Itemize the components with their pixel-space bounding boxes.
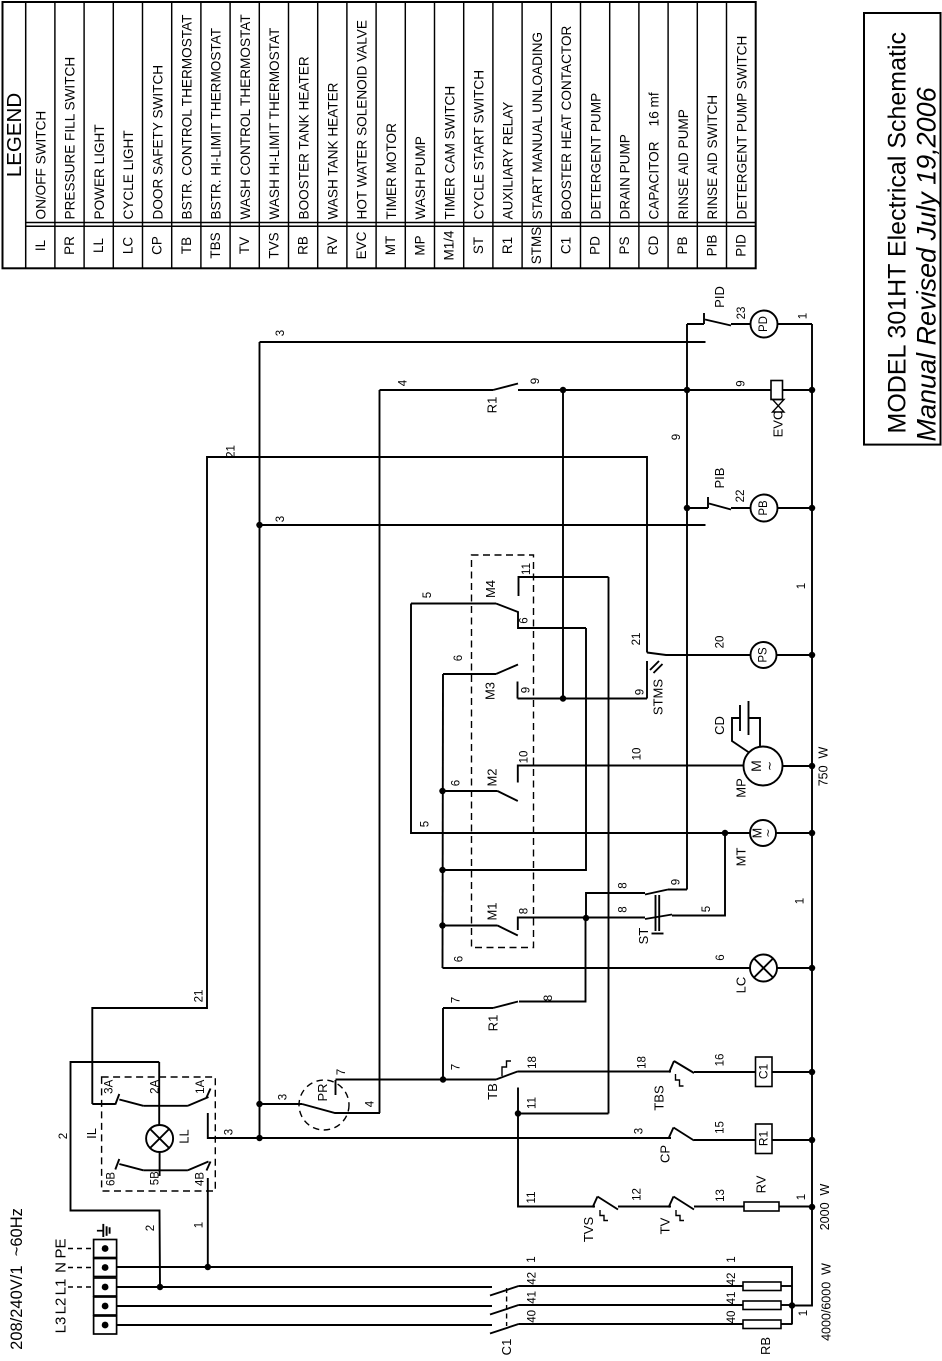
wire 11 junction — [518, 1113, 609, 1115]
wire N — [117, 1267, 792, 1325]
svg-text:21: 21 — [194, 990, 206, 1003]
PR blade to 4 — [302, 1104, 380, 1113]
wire 7 from PR to TB — [336, 1079, 497, 1081]
svg-text:R1: R1 — [485, 397, 500, 414]
lamp LC — [750, 955, 777, 982]
svg-text:21: 21 — [225, 445, 237, 458]
svg-text:10: 10 — [632, 748, 644, 761]
svg-text:∼: ∼ — [763, 828, 775, 837]
svg-text:18: 18 — [637, 1056, 649, 1069]
wire 4 top — [380, 389, 494, 391]
svg-text:2000 W: 2000 W — [818, 1184, 832, 1231]
svg-text:MODEL 301HT Electrical Schemat: MODEL 301HT Electrical Schematic — [884, 32, 912, 434]
svg-text:3: 3 — [224, 1129, 236, 1135]
svg-text:41: 41 — [726, 1292, 738, 1305]
svg-text:11: 11 — [526, 1192, 538, 1204]
pump PD — [751, 311, 778, 338]
capacitor CD — [739, 705, 741, 731]
legend entry TB — [200, 2, 202, 268]
svg-text:MT: MT — [734, 848, 749, 867]
svg-text:PD: PD — [758, 316, 770, 332]
wire PID to PD — [731, 323, 751, 325]
svg-text:11: 11 — [527, 1097, 539, 1109]
junction 3 mid — [256, 522, 263, 529]
svg-text:WASH PUMP: WASH PUMP — [413, 136, 428, 219]
dashed leader L1 — [68, 1286, 92, 1288]
svg-text:L2: L2 — [52, 1298, 69, 1315]
svg-text:PB: PB — [675, 236, 690, 254]
junction node3 IL — [256, 1135, 263, 1142]
svg-text:N: N — [52, 1262, 69, 1273]
svg-text:LL: LL — [177, 1129, 192, 1143]
junction 9 row a — [560, 387, 567, 394]
wire 9 to ST — [668, 889, 687, 891]
svg-text:16: 16 — [715, 1054, 727, 1067]
svg-text:RB: RB — [758, 1337, 773, 1355]
svg-text:1: 1 — [726, 1256, 738, 1262]
wire RV to bus1 — [779, 1206, 812, 1208]
svg-text:TB: TB — [485, 1083, 500, 1100]
wire 8 from R1 — [519, 918, 586, 1002]
svg-text:1: 1 — [526, 1256, 538, 1262]
svg-text:3: 3 — [275, 330, 287, 336]
contactor C1 pole 41 — [117, 1305, 492, 1307]
svg-text:EVC: EVC — [771, 411, 786, 438]
svg-text:6: 6 — [454, 956, 466, 962]
IL contact 6B — [115, 1159, 119, 1170]
svg-text:DRAIN PUMP: DRAIN PUMP — [618, 134, 633, 219]
IL pole B bar — [143, 1169, 188, 1171]
wire PIB to PB — [731, 507, 751, 509]
motor MP — [744, 747, 783, 786]
IL blade 5B-4B — [188, 1162, 209, 1171]
svg-text:PIB: PIB — [712, 468, 727, 489]
legend entry CD — [667, 2, 669, 268]
svg-text:3: 3 — [278, 1094, 290, 1100]
svg-text:WASH HI-LIMIT THERMOSTAT: WASH HI-LIMIT THERMOSTAT — [267, 28, 282, 220]
ground symbol PE — [97, 1230, 103, 1232]
svg-text:POWER LIGHT: POWER LIGHT — [92, 124, 107, 219]
svg-text:CP: CP — [150, 236, 165, 255]
svg-text:6: 6 — [453, 655, 465, 661]
svg-text:1: 1 — [193, 1222, 205, 1228]
svg-text:4000/6000 W: 4000/6000 W — [820, 1263, 834, 1341]
svg-text:LL: LL — [91, 238, 106, 254]
wire 6 link M4 — [443, 628, 587, 870]
legend table frame — [3, 2, 756, 268]
terminal L1 — [94, 1278, 117, 1296]
svg-text:12: 12 — [632, 1188, 644, 1201]
svg-text:7: 7 — [451, 1064, 463, 1070]
wire 5 riser — [411, 604, 750, 834]
wire bus 1 vertical — [792, 324, 812, 1306]
IL contact 3A — [92, 1103, 115, 1105]
wire 9 row to EVC — [518, 389, 771, 391]
switch ST pole 1 — [586, 893, 645, 918]
wire 21 bus — [92, 457, 647, 1104]
svg-text:4: 4 — [364, 1100, 376, 1107]
wire R1 to bus1 — [772, 1139, 812, 1141]
terminal L3 — [94, 1316, 117, 1334]
svg-text:9: 9 — [635, 689, 647, 695]
junction 7 — [440, 1076, 447, 1083]
svg-text:CYCLE START SWITCH: CYCLE START SWITCH — [472, 70, 487, 220]
svg-text:STMS: STMS — [529, 227, 544, 265]
svg-text:TVS: TVS — [266, 232, 281, 258]
svg-text:23: 23 — [736, 307, 748, 320]
svg-text:START MANUAL UNLOADING: START MANUAL UNLOADING — [530, 32, 545, 220]
junction 3 PR — [256, 1101, 263, 1108]
wire C1 to bus1 — [772, 1071, 812, 1073]
svg-text:8: 8 — [518, 908, 530, 914]
dashed leader PE — [68, 1248, 92, 1250]
wire EVC to bus1 — [783, 389, 813, 391]
svg-text:CAPACITOR 16 mf: CAPACITOR 16 mf — [647, 92, 662, 219]
svg-text:9: 9 — [530, 378, 542, 384]
svg-text:3: 3 — [634, 1128, 646, 1134]
svg-text:MP: MP — [734, 778, 749, 798]
wire 4 vertical — [379, 390, 381, 1113]
svg-text:BSTR. CONTROL THERMOSTAT: BSTR. CONTROL THERMOSTAT — [180, 15, 195, 220]
IL 1A output to node 3 — [208, 1113, 260, 1138]
svg-text:M1: M1 — [485, 902, 500, 920]
IL blade 2A-1A — [188, 1097, 209, 1106]
svg-text:5: 5 — [420, 821, 432, 827]
svg-text:PD: PD — [588, 236, 603, 255]
svg-text:LC: LC — [734, 977, 749, 994]
svg-text:PR: PR — [62, 236, 77, 255]
junction wire1 N — [205, 1264, 212, 1271]
svg-text:6: 6 — [519, 617, 531, 623]
svg-text:EVC: EVC — [354, 231, 369, 259]
svg-text:1: 1 — [798, 313, 810, 319]
wire 12 — [618, 1206, 671, 1208]
svg-text:IL: IL — [33, 239, 48, 251]
legend header divider — [25, 2, 27, 268]
legend entry PD — [609, 2, 611, 268]
contactor C1 pole 42 — [117, 1286, 492, 1288]
svg-text:18: 18 — [527, 1056, 539, 1069]
svg-text:8: 8 — [543, 995, 555, 1001]
svg-text:11: 11 — [521, 563, 533, 575]
svg-text:15: 15 — [715, 1121, 727, 1134]
svg-text:40: 40 — [726, 1311, 738, 1324]
svg-text:2: 2 — [58, 1133, 70, 1139]
lamp LL — [146, 1125, 173, 1152]
wire 8 row — [518, 917, 645, 919]
svg-text:L1: L1 — [52, 1279, 69, 1296]
M1 input 6 — [439, 922, 446, 929]
wire 11 to TVS — [518, 1114, 595, 1207]
wire 5 from ST — [672, 833, 725, 916]
wire 7 riser — [442, 1008, 444, 1080]
svg-text:3A: 3A — [104, 1079, 116, 1093]
svg-text:C1: C1 — [558, 237, 573, 254]
contactor C1 pole 40 — [117, 1324, 492, 1326]
junction L1 wire 2 — [157, 1284, 164, 1291]
M1 blade — [498, 926, 518, 936]
legend entry PB — [696, 2, 698, 268]
pump PB — [751, 495, 778, 522]
M3 input 6 — [443, 673, 496, 675]
svg-text:AUXILIARY RELAY: AUXILIARY RELAY — [501, 102, 516, 220]
svg-text:1A: 1A — [195, 1079, 207, 1093]
svg-text:PID: PID — [712, 286, 727, 308]
wire MP to bus1 — [783, 765, 813, 767]
M2 input 6 — [439, 788, 446, 795]
wire 13 — [694, 1206, 744, 1208]
M1 contact 8 — [518, 918, 645, 931]
svg-text:TIMER MOTOR: TIMER MOTOR — [384, 123, 399, 220]
M4 contact 11 — [519, 577, 609, 596]
IL blade 3A-2A — [119, 1100, 143, 1106]
svg-text:9: 9 — [671, 879, 683, 885]
legend entry PIB — [726, 2, 728, 268]
terminal N — [94, 1259, 117, 1277]
legend entry R1 — [521, 2, 523, 268]
svg-text:DETERGENT PUMP SWITCH: DETERGENT PUMP SWITCH — [734, 36, 749, 220]
svg-text:9: 9 — [671, 434, 683, 440]
wire 9 to node8 branch — [562, 390, 564, 699]
svg-text:TB: TB — [179, 237, 194, 254]
svg-text:RINSE AID PUMP: RINSE AID PUMP — [676, 109, 691, 219]
terminal PE — [94, 1240, 117, 1258]
IL blade 6B-5B — [119, 1164, 143, 1170]
svg-text:TBS: TBS — [208, 232, 223, 258]
wire node 3 vertical bus — [259, 342, 261, 1138]
svg-text:LEGEND: LEGEND — [3, 93, 26, 177]
legend entry IL — [54, 2, 56, 268]
wire 6 to LC — [443, 967, 751, 969]
svg-text:8: 8 — [618, 906, 630, 912]
svg-text:M4: M4 — [483, 580, 498, 598]
heater RB 40 — [743, 1320, 781, 1329]
svg-text:41: 41 — [526, 1291, 538, 1304]
wire LC to bus1 — [777, 967, 812, 969]
svg-text:RB: RB — [296, 236, 311, 255]
svg-text:2: 2 — [145, 1225, 157, 1231]
svg-text:42: 42 — [726, 1273, 738, 1286]
svg-text:RV: RV — [754, 1175, 769, 1193]
M2 contact 10 — [518, 766, 743, 783]
legend entry ST — [492, 2, 494, 268]
svg-text:PE: PE — [52, 1238, 69, 1258]
thermostat TB — [496, 1072, 518, 1080]
svg-text:10: 10 — [519, 751, 531, 764]
svg-text:5B: 5B — [150, 1171, 162, 1185]
svg-text:750 W: 750 W — [817, 747, 831, 787]
wire 10 to MP — [518, 765, 744, 767]
wire 15 — [694, 1139, 756, 1141]
svg-text:RINSE AID SWITCH: RINSE AID SWITCH — [705, 95, 720, 220]
svg-text:5: 5 — [701, 906, 713, 912]
svg-text:1: 1 — [796, 1194, 808, 1200]
legend entry TVS — [288, 2, 290, 268]
switch PR dashed circle — [299, 1080, 349, 1130]
wire 1 from IL 4B to N — [207, 1178, 209, 1267]
wire PD to bus1 — [778, 323, 813, 325]
heater RB 42 — [743, 1282, 781, 1291]
relay coil R1 — [756, 1124, 773, 1154]
pump PS — [751, 642, 777, 668]
svg-text:22: 22 — [735, 490, 747, 503]
contactor C1 dashed link — [506, 1288, 508, 1326]
legend entry STMS — [550, 2, 552, 268]
svg-text:7: 7 — [336, 1069, 348, 1075]
svg-text:TV: TV — [237, 237, 252, 254]
svg-text:21: 21 — [631, 633, 643, 646]
M2 blade — [498, 791, 518, 801]
svg-text:CYCLE LIGHT: CYCLE LIGHT — [121, 130, 136, 219]
legend entry PS — [638, 2, 640, 268]
wire 6 riser — [442, 674, 445, 968]
svg-text:M1/4: M1/4 — [442, 230, 457, 261]
EVC valve glyph — [773, 400, 785, 413]
svg-text:BOOSTER HEAT CONTACTOR: BOOSTER HEAT CONTACTOR — [559, 25, 574, 219]
IL wire 5B center — [159, 1152, 161, 1176]
svg-text:5: 5 — [422, 592, 434, 598]
M4 input 5 — [411, 603, 496, 605]
svg-text:ST: ST — [636, 928, 651, 945]
ST pole1 blade — [645, 890, 668, 895]
svg-text:TBS: TBS — [652, 1085, 667, 1111]
svg-text:PRESSURE FILL SWITCH: PRESSURE FILL SWITCH — [63, 57, 78, 220]
svg-text:CD: CD — [712, 716, 727, 735]
svg-text:8: 8 — [618, 882, 630, 888]
M3 blade — [496, 665, 518, 675]
svg-text:CP: CP — [658, 1145, 673, 1163]
svg-text:TV: TV — [658, 1217, 673, 1234]
title block frame — [864, 13, 941, 445]
svg-text:PS: PS — [758, 647, 770, 663]
svg-text:R1: R1 — [500, 237, 515, 254]
switch IL dashed enclosure — [102, 1077, 216, 1191]
wire 20 STMS to PS — [647, 653, 751, 656]
relay contact R1 hold — [443, 1007, 493, 1009]
junction 9 row b — [684, 387, 691, 394]
legend entry LL — [112, 2, 114, 268]
svg-text:MT: MT — [383, 236, 398, 256]
PR contact 7 tick — [335, 1080, 337, 1095]
svg-text:MP: MP — [412, 235, 427, 255]
svg-text:DOOR SAFETY SWITCH: DOOR SAFETY SWITCH — [150, 65, 165, 220]
legend entry CP — [171, 2, 173, 268]
legend entry TBS — [229, 2, 231, 268]
svg-text:40: 40 — [526, 1310, 538, 1323]
svg-text:TVS: TVS — [581, 1217, 596, 1243]
svg-text:6: 6 — [715, 954, 727, 960]
wire 2 from L1 to IL — [71, 1062, 161, 1286]
thermostat TVS — [593, 1197, 598, 1208]
svg-text:LC: LC — [120, 237, 135, 255]
legend entry PR — [83, 2, 85, 268]
svg-text:ON/OFF SWITCH: ON/OFF SWITCH — [34, 111, 49, 220]
legend entry RB — [317, 2, 319, 268]
IL contact 1A — [207, 1089, 211, 1098]
legend entry MT — [404, 2, 406, 268]
svg-text:1: 1 — [798, 1310, 810, 1316]
svg-text:Manual Revised July 19,2006: Manual Revised July 19,2006 — [912, 86, 942, 441]
legend entry RV — [346, 2, 348, 268]
svg-text:1: 1 — [796, 583, 808, 589]
dashed leader N — [68, 1267, 92, 1269]
legend entry MP — [434, 2, 436, 268]
switch STMS — [646, 661, 648, 699]
PR input from node 3 — [260, 1103, 303, 1105]
svg-text:R1: R1 — [757, 1131, 771, 1147]
legend row divider double line — [26, 222, 756, 224]
svg-text:DETERGENT PUMP: DETERGENT PUMP — [588, 93, 603, 220]
wire 11 from M4 — [608, 577, 610, 1114]
junction RB bus1 — [789, 1302, 796, 1309]
svg-text:BSTR. HI-LIMIT THERMOSTAT: BSTR. HI-LIMIT THERMOSTAT — [209, 28, 224, 220]
svg-text:PR: PR — [315, 1083, 330, 1101]
wire 3 mid branch — [260, 524, 706, 526]
legend entry EVC — [375, 2, 377, 268]
svg-text:L3: L3 — [52, 1317, 69, 1334]
wire PB to bus1 — [778, 507, 813, 509]
svg-text:R1: R1 — [486, 1015, 501, 1032]
ST actuator — [655, 895, 657, 931]
timer dashed enclosure M1-M4 — [472, 555, 534, 948]
legend entry M1/4 — [463, 2, 465, 268]
svg-text:9: 9 — [521, 687, 533, 693]
svg-text:PID: PID — [734, 234, 749, 257]
svg-text:CD: CD — [646, 236, 661, 256]
svg-text:C1: C1 — [499, 1339, 514, 1356]
legend entry C1 — [580, 2, 582, 268]
svg-text:WASH TANK HEATER: WASH TANK HEATER — [326, 82, 341, 219]
switch PID — [687, 323, 704, 325]
svg-text:6B: 6B — [106, 1172, 118, 1186]
IL pole A bar — [143, 1105, 188, 1107]
wire 9 row M3 to STMS — [518, 698, 648, 700]
heater RB 41 — [743, 1301, 781, 1310]
svg-text:STMS: STMS — [651, 679, 666, 715]
svg-text:42: 42 — [526, 1272, 538, 1285]
svg-text:PS: PS — [617, 236, 632, 254]
wire PS to bus1 — [777, 654, 813, 656]
IL wire 2A center — [158, 1062, 160, 1125]
svg-text:HOT WATER SOLENOID VALVE: HOT WATER SOLENOID VALVE — [355, 20, 370, 219]
svg-text:C1: C1 — [757, 1064, 771, 1080]
switch PIB — [684, 505, 691, 512]
legend entry LC — [142, 2, 144, 268]
svg-text:M3: M3 — [483, 682, 498, 700]
svg-text:208/240V/1 ~60Hz: 208/240V/1 ~60Hz — [8, 1208, 26, 1350]
wire 3 to CP — [260, 1137, 672, 1139]
svg-text:6: 6 — [450, 780, 462, 786]
svg-text:IL: IL — [84, 1128, 99, 1139]
wire 9 bus vertical — [686, 324, 688, 890]
wire MT to bus1 — [776, 832, 812, 834]
svg-text:4B: 4B — [195, 1172, 207, 1186]
junction bus1 EVC — [809, 387, 816, 394]
M3 contact 9 — [517, 682, 519, 699]
svg-text:PIB: PIB — [704, 235, 719, 257]
wire 18 — [518, 1071, 672, 1073]
wire 16 — [694, 1071, 756, 1073]
svg-text:1: 1 — [795, 898, 807, 904]
svg-text:20: 20 — [715, 636, 727, 649]
wire 3 top branch — [260, 341, 706, 343]
svg-text:3: 3 — [275, 516, 287, 522]
svg-text:13: 13 — [715, 1189, 727, 1202]
svg-text:4: 4 — [398, 379, 410, 386]
legend entry TV — [258, 2, 260, 268]
svg-text:PB: PB — [758, 500, 770, 516]
svg-text:9: 9 — [736, 380, 748, 386]
